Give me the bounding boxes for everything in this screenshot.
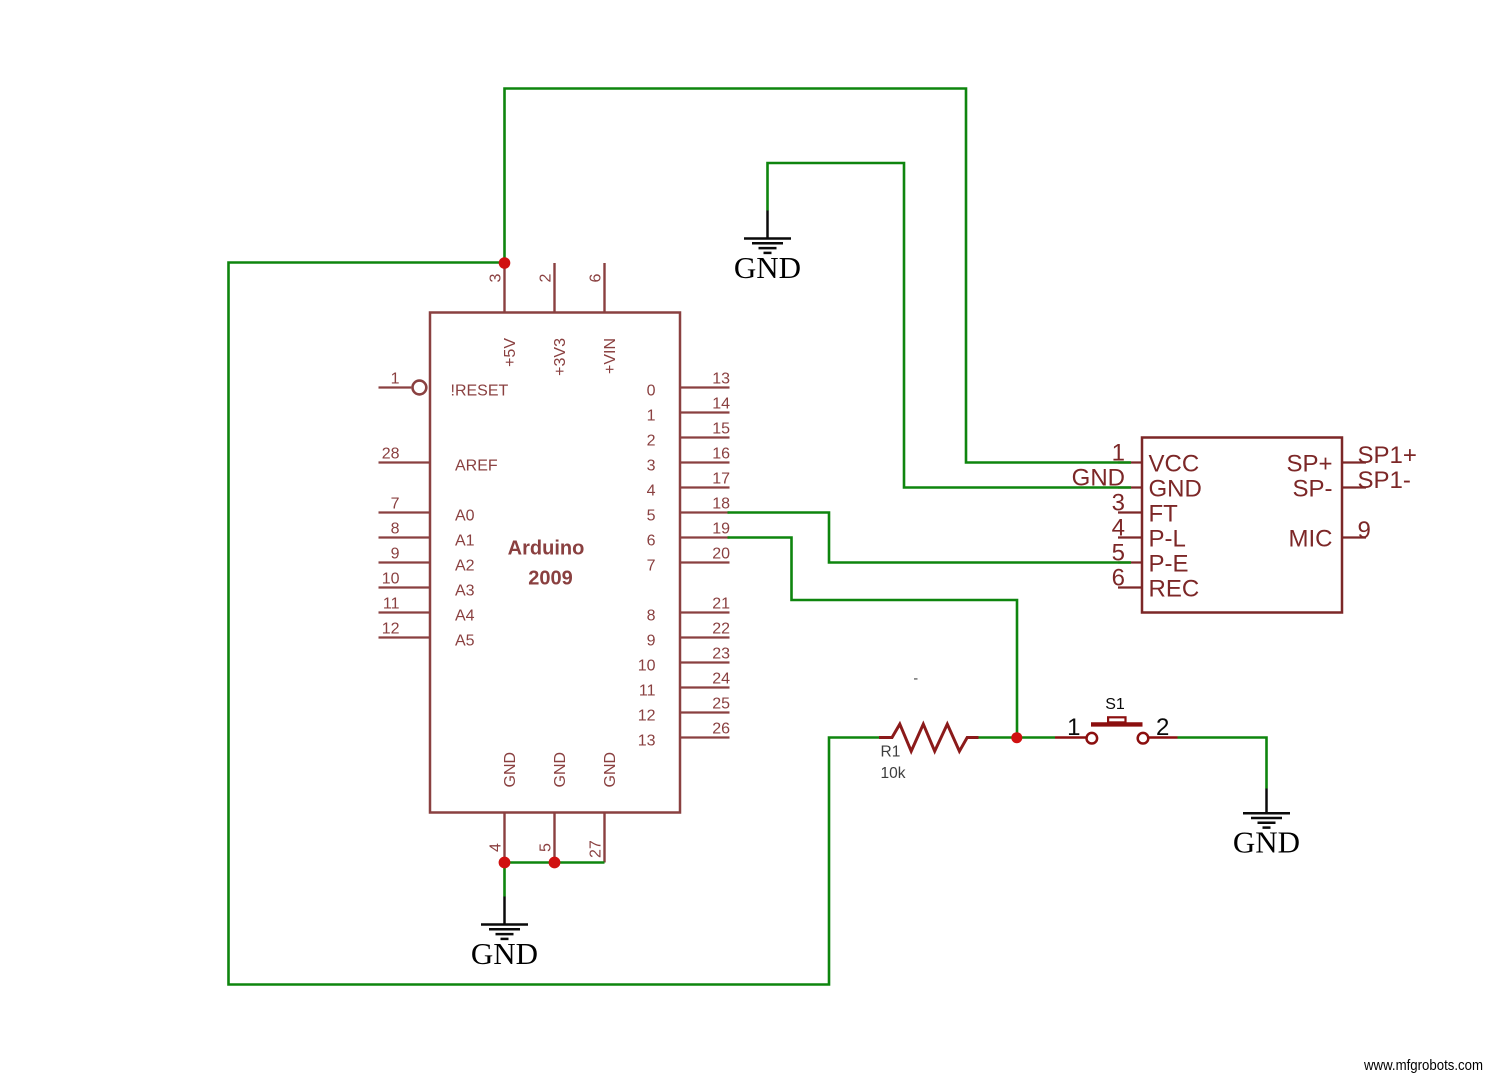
pin 17 (digital 4) right stub — [680, 486, 730, 488]
svg-text:3: 3 — [1112, 490, 1125, 517]
wire: switch S1 pin2 to ground — [1178, 738, 1267, 789]
svg-text:10k: 10k — [881, 765, 906, 782]
switch S1 button bump — [1108, 717, 1125, 722]
svg-text:5: 5 — [647, 508, 656, 525]
svg-text:6: 6 — [647, 533, 656, 550]
junction node: GND pin4 — [499, 857, 511, 869]
pin 26 (digital 13) right stub — [680, 736, 730, 738]
svg-text:25: 25 — [712, 696, 730, 713]
ISD pin 9 (MIC) right stub — [1342, 536, 1366, 538]
svg-text:22: 22 — [712, 621, 730, 638]
svg-text:9: 9 — [647, 633, 656, 650]
svg-text:SP-: SP- — [1292, 475, 1332, 502]
svg-text:GND: GND — [734, 250, 801, 285]
switch S1 pin1 terminal circle — [1087, 733, 1098, 744]
pin 1 (!RESET) left stub — [379, 386, 412, 388]
svg-text:6: 6 — [1112, 565, 1125, 592]
pin 25 (digital 12) right stub — [680, 711, 730, 713]
svg-text:9: 9 — [1358, 517, 1371, 544]
svg-text:3: 3 — [647, 458, 656, 475]
svg-text:+5V: +5V — [502, 338, 519, 367]
svg-text:0: 0 — [647, 383, 656, 400]
svg-text:+3V3: +3V3 — [552, 338, 569, 376]
stray mark — [914, 678, 918, 680]
svg-text:P-L: P-L — [1149, 525, 1186, 552]
pin 7 (A0) left stub — [379, 511, 431, 513]
pin 10 (A3) left stub — [379, 586, 431, 588]
pin 13 (digital 0) right stub — [680, 386, 730, 388]
svg-text:8: 8 — [391, 521, 400, 538]
switch S1 actuator bar — [1091, 722, 1143, 726]
svg-text:REC: REC — [1149, 575, 1200, 602]
svg-text:A2: A2 — [455, 558, 475, 575]
switch S1 pin1 lead — [1055, 736, 1086, 738]
svg-text:A4: A4 — [455, 608, 475, 625]
pin 20 (digital 7) right stub — [680, 561, 730, 563]
wire net D5: Arduino pin18 to ISD P-E — [728, 513, 1132, 563]
ISD pin 3 (FT) left stub — [1118, 511, 1142, 513]
svg-text:26: 26 — [712, 721, 730, 738]
svg-text:P-E: P-E — [1149, 550, 1189, 577]
svg-text:10: 10 — [638, 658, 656, 675]
pin 28 (AREF) left stub — [379, 461, 431, 463]
wire net GND: ground symbol to ISD GND pin — [768, 163, 1132, 488]
pin 3 (+5V) top stub — [503, 263, 505, 313]
svg-text:10: 10 — [382, 571, 400, 588]
svg-text:9: 9 — [391, 546, 400, 563]
pin 8 (A1) left stub — [379, 536, 431, 538]
svg-text:4: 4 — [647, 483, 656, 500]
ISD pin 4 (P-L) left stub — [1118, 536, 1142, 538]
svg-text:GND: GND — [1149, 475, 1202, 502]
svg-text:14: 14 — [712, 396, 730, 413]
pin 21 (digital 8) right stub — [680, 611, 730, 613]
svg-text:www.mfgrobots.com: www.mfgrobots.com — [1363, 1058, 1483, 1074]
svg-text:5: 5 — [538, 843, 555, 852]
svg-text:4: 4 — [1112, 515, 1125, 542]
svg-text:19: 19 — [712, 521, 730, 538]
svg-text:GND: GND — [502, 752, 519, 788]
ISD pin SP1- (SP-) right stub — [1342, 486, 1366, 488]
resistor R1 10k — [879, 724, 979, 751]
svg-text:GND: GND — [1233, 825, 1300, 860]
ground symbol (bottom) — [481, 897, 528, 939]
ground symbol (top) — [744, 211, 791, 253]
ISD pin 5 (P-E) left stub — [1118, 561, 1142, 563]
pin 5 (GND) bottom stub — [553, 813, 555, 863]
wire: resistor R1 right to switch S1 pin1 — [979, 736, 1056, 739]
svg-text:FT: FT — [1149, 500, 1179, 527]
svg-text:2: 2 — [538, 274, 555, 283]
wire net +5V: Arduino pin3 up and over to ISD VCC — [505, 89, 1132, 463]
svg-text:18: 18 — [712, 496, 730, 513]
pin 18 (digital 5) right stub — [680, 511, 730, 513]
junction node: GND pin5 — [549, 857, 561, 869]
wire net D6: Arduino pin19 to R1/S1 junction — [728, 538, 1018, 738]
svg-text:GND: GND — [552, 752, 569, 788]
pin 11 (A4) left stub — [379, 611, 431, 613]
IC ISD1820 voice module body — [1142, 438, 1342, 613]
switch S1 pin2 lead — [1149, 736, 1178, 738]
pin 2 (+3V3) top stub — [553, 263, 555, 313]
pin 24 (digital 11) right stub — [680, 686, 730, 688]
svg-text:27: 27 — [588, 840, 605, 858]
svg-text:12: 12 — [638, 708, 656, 725]
svg-text:!RESET: !RESET — [451, 383, 509, 400]
svg-text:A5: A5 — [455, 633, 475, 650]
pin 16 (digital 3) right stub — [680, 461, 730, 463]
ISD pin GND (GND) left stub — [1118, 486, 1142, 488]
svg-text:A3: A3 — [455, 583, 475, 600]
svg-text:A0: A0 — [455, 508, 475, 525]
svg-text:17: 17 — [712, 471, 730, 488]
svg-text:6: 6 — [588, 274, 605, 283]
svg-text:3: 3 — [488, 274, 505, 283]
svg-text:1: 1 — [1067, 714, 1080, 741]
pin 9 (A2) left stub — [379, 561, 431, 563]
ISD pin 6 (REC) left stub — [1118, 586, 1142, 588]
svg-text:8: 8 — [647, 608, 656, 625]
svg-text:20: 20 — [712, 546, 730, 563]
svg-text:S1: S1 — [1105, 696, 1125, 713]
wire: Arduino GND pins 4,5,27 bus — [505, 863, 605, 897]
pin 22 (digital 9) right stub — [680, 636, 730, 638]
ISD pin SP1+ (SP+) right stub — [1342, 461, 1366, 463]
pin 19 (digital 6) right stub — [680, 536, 730, 538]
svg-text:12: 12 — [382, 621, 400, 638]
pin 23 (digital 10) right stub — [680, 661, 730, 663]
svg-text:GND: GND — [602, 752, 619, 788]
junction node: pin3/+5V — [499, 257, 511, 269]
IC Arduino 2009 body — [430, 313, 680, 813]
svg-text:1: 1 — [647, 408, 656, 425]
svg-text:21: 21 — [712, 596, 730, 613]
svg-text:24: 24 — [712, 671, 730, 688]
svg-text:SP+: SP+ — [1286, 450, 1332, 477]
svg-text:R1: R1 — [881, 744, 901, 761]
svg-text:16: 16 — [712, 446, 730, 463]
pin 4 (GND) bottom stub — [503, 813, 505, 863]
pin 15 (digital 2) right stub — [680, 436, 730, 438]
svg-text:7: 7 — [391, 496, 400, 513]
svg-text:11: 11 — [383, 596, 400, 613]
ground symbol (right) — [1243, 789, 1290, 828]
svg-text:4: 4 — [488, 843, 505, 852]
svg-text:2: 2 — [647, 433, 656, 450]
svg-text:28: 28 — [382, 446, 400, 463]
wire net +5V: Arduino pin3 to bottom loop to resistor R1 left — [229, 263, 880, 985]
pin 14 (digital 1) right stub — [680, 411, 730, 413]
svg-text:1: 1 — [391, 371, 400, 388]
svg-text:Arduino: Arduino — [508, 538, 585, 560]
svg-text:SP1-: SP1- — [1358, 467, 1411, 494]
switch S1 pin2 terminal circle — [1138, 733, 1149, 744]
svg-text:A1: A1 — [455, 533, 475, 550]
svg-text:SP1+: SP1+ — [1358, 442, 1417, 469]
ISD pin 1 (VCC) left stub — [1118, 461, 1142, 463]
svg-text:2009: 2009 — [528, 568, 573, 590]
svg-text:7: 7 — [647, 558, 656, 575]
pin 1 inversion circle — [413, 381, 427, 395]
svg-text:15: 15 — [712, 421, 730, 438]
junction node: R1/S1/D6 — [1011, 732, 1022, 743]
pin 6 (+VIN) top stub — [603, 263, 605, 313]
pin 12 (A5) left stub — [379, 636, 431, 638]
svg-text:23: 23 — [712, 646, 730, 663]
svg-text:13: 13 — [712, 371, 730, 388]
svg-text:AREF: AREF — [455, 458, 498, 475]
svg-text:+VIN: +VIN — [602, 338, 619, 374]
pin 27 (GND) bottom stub — [603, 813, 605, 863]
svg-text:VCC: VCC — [1149, 450, 1200, 477]
svg-text:11: 11 — [639, 683, 656, 700]
svg-text:MIC: MIC — [1289, 525, 1333, 552]
svg-text:GND: GND — [471, 936, 538, 971]
svg-text:2: 2 — [1156, 714, 1169, 741]
svg-text:13: 13 — [638, 733, 656, 750]
